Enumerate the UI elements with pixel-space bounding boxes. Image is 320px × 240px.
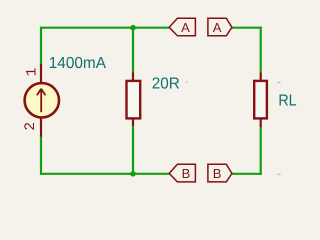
hidden field marker near label A1 (186, 81, 188, 83)
global label B right (208, 164, 232, 182)
svg-text:B: B (182, 166, 191, 181)
wire bottom horizontal (41, 173, 169, 175)
wire top horizontal (41, 27, 169, 29)
global label B left (169, 164, 195, 182)
current source I1 body (25, 83, 59, 117)
wire middle vertical lower (132, 125, 134, 174)
wire middle vertical upper (132, 28, 134, 73)
resistor 20R body (127, 81, 141, 119)
wire right vertical lower (260, 127, 262, 175)
wire left vertical lower (40, 136, 42, 175)
resistor RL body (254, 81, 267, 119)
svg-text:RL: RL (278, 93, 296, 110)
resistor RL pin stubs (260, 72, 262, 81)
current source I1 pin 1 stub (40, 64, 42, 84)
svg-text:20R: 20R (152, 75, 180, 92)
current source I1 pin 2 stub (40, 117, 42, 137)
svg-text:1: 1 (25, 68, 41, 77)
wire top right stub (232, 27, 262, 29)
junction bottom (130, 171, 136, 177)
svg-text:1400mA: 1400mA (49, 55, 107, 72)
wire bottom right stub (232, 173, 262, 175)
resistor 20R pin stubs (132, 72, 134, 81)
global label A right (208, 18, 232, 36)
svg-text:A: A (181, 20, 190, 35)
global label A left (169, 18, 195, 36)
svg-text:A: A (213, 20, 222, 35)
hidden pin marker near RL pin 1 (277, 82, 280, 84)
junction top (130, 25, 136, 31)
hidden pin marker near RL pin 2 (277, 174, 280, 176)
current source I1 arrow (37, 89, 46, 113)
wire left vertical upper (40, 27, 42, 65)
wire right vertical upper (260, 27, 262, 73)
svg-text:B: B (213, 166, 222, 181)
svg-text:2: 2 (23, 122, 39, 131)
